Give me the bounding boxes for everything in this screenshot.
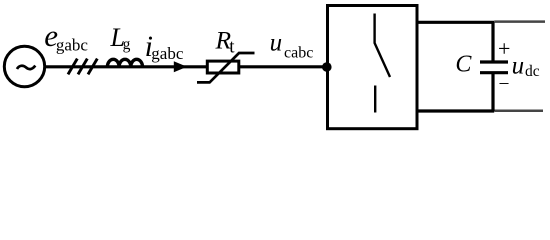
svg-text:gabc: gabc (151, 44, 184, 63)
svg-text:C: C (455, 52, 472, 78)
wire dc bottom rail (417, 109, 494, 112)
svg-text:gabc: gabc (56, 35, 89, 54)
switch bottom lead (374, 86, 376, 113)
three-phase slash 3 (88, 59, 97, 75)
svg-text:u: u (270, 30, 283, 57)
inductor Lg (107, 59, 142, 67)
svg-text:u: u (512, 52, 524, 79)
converter box U1 (328, 6, 418, 129)
svg-text:g: g (123, 36, 131, 53)
node dot (322, 62, 332, 72)
wire main (44, 65, 327, 68)
three-phase slash 2 (78, 59, 87, 75)
resistor Rt diagonal (197, 53, 255, 82)
capacitor C top lead (491, 22, 494, 62)
wire dc top gray extension (494, 20, 545, 23)
ac source V1 (4, 46, 44, 86)
capacitor C top plate (480, 60, 508, 63)
svg-text:dc: dc (525, 63, 540, 80)
svg-text:+: + (498, 36, 510, 61)
three-phase slash 1 (68, 59, 77, 75)
svg-text:t: t (229, 37, 235, 58)
ac source tilde (17, 66, 35, 70)
resistor Rt body (207, 61, 239, 73)
svg-text:−: − (499, 74, 510, 95)
capacitor C bottom lead (491, 73, 494, 111)
wire dc top rail (417, 21, 494, 24)
capacitor C bottom plate (480, 71, 508, 74)
current arrow (174, 61, 187, 72)
switch top lead (375, 14, 390, 78)
wire dc bottom gray extension (494, 109, 543, 112)
svg-text:cabc: cabc (284, 45, 313, 62)
